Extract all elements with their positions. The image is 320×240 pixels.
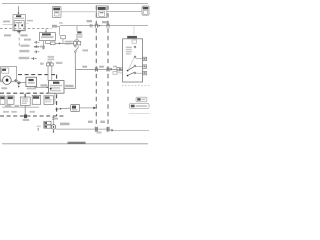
module M2 (control module) bbox=[48, 81, 64, 94]
fuse block boundary dashed edge (mid) bbox=[0, 92, 48, 94]
fuse block boundary dashed edge (bottom) bbox=[0, 115, 66, 117]
module M1 (junction block) bbox=[39, 33, 55, 41]
wire: K2 to K3 bbox=[107, 11, 142, 13]
fuse F3 right of M1 bbox=[61, 35, 66, 38]
fuse/relay row boxes A-E bbox=[0, 96, 54, 106]
harness boundary dashed line (right) bbox=[107, 6, 109, 134]
wire: S1 output to right with connectors C200/C201 bbox=[75, 52, 122, 69]
page top border bbox=[2, 3, 148, 5]
wire: into M2 left pin bbox=[37, 86, 48, 88]
label: ignition switch feed bbox=[77, 31, 81, 33]
wire: box C to splice junction bbox=[24, 105, 26, 114]
switch S1 bbox=[75, 46, 77, 48]
wire: feeds into module M1 bbox=[45, 29, 47, 33]
callout box K3 bbox=[142, 6, 149, 15]
connectors C1-C4 (inline connector stack) bbox=[24, 39, 31, 41]
wire (dashed) from battery bus bbox=[0, 28, 52, 30]
ground G2 at splice bbox=[53, 129, 55, 132]
wire: splice to right edge with connectors C300/C301 bbox=[56, 128, 109, 130]
fuse F1 (BAT mega fuse) bbox=[13, 15, 25, 33]
connector pair at switch S1 input bbox=[76, 26, 78, 32]
connector at motor output bbox=[14, 79, 18, 81]
caption text label bbox=[68, 142, 86, 144]
connector glyph bottom-left area bbox=[38, 128, 39, 130]
fuse block boundary dashed edge (right) bbox=[56, 75, 58, 116]
dotted separator under U1 bbox=[122, 85, 150, 87]
wire: M1 bottom output bbox=[43, 41, 45, 49]
wire: M2 bottom pin down bbox=[54, 93, 56, 104]
splice S300 cluster with fuses bbox=[52, 116, 54, 125]
wire: branch down to module M2 bbox=[64, 69, 76, 88]
wire: F3 down to switch feed bbox=[62, 39, 64, 44]
wire: drop into box C bbox=[24, 94, 26, 98]
motor MTR1 (starter) bbox=[0, 67, 17, 85]
harness boundary dashed line (left) bbox=[95, 6, 97, 134]
label: fuse rating bbox=[3, 21, 10, 23]
page bottom border bbox=[2, 143, 148, 145]
labels above fuse block bottom edge bbox=[3, 111, 9, 113]
pins 1-3 of U1 bbox=[143, 57, 147, 60]
splice S200 and callout box K4 bbox=[56, 108, 58, 110]
wire: motor to M2 bbox=[17, 83, 37, 88]
wire: K1 to K2 bbox=[61, 11, 97, 13]
ignition switch assembly U1 bbox=[127, 36, 137, 38]
ground G1 at motor bbox=[18, 82, 21, 84]
wire: feed into battery fuse F1 bbox=[18, 6, 20, 13]
wire: main feed bus bbox=[60, 25, 148, 27]
callout box K1 bbox=[52, 7, 61, 18]
callout boxes JP1/JP2 bbox=[136, 97, 147, 102]
wire: battery output with labels bbox=[18, 32, 20, 34]
fuse block boundary dashed edge (top) bbox=[18, 74, 57, 76]
wire: row bus bbox=[2, 106, 39, 108]
fuse F2 and wire out of M1 bbox=[46, 41, 51, 44]
connector pair and wires feeding M2 top bbox=[48, 56, 54, 58]
callout box K2 bbox=[97, 6, 107, 18]
relay RLY1 bbox=[26, 77, 37, 86]
